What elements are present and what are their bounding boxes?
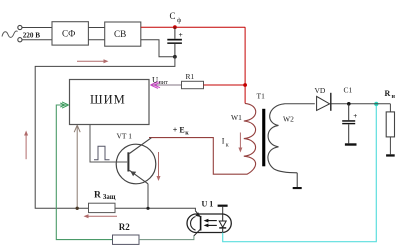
load Rn (386, 112, 394, 137)
collector line (129, 138, 151, 154)
wire emitter down (147, 184, 149, 209)
wire red vertical to W1 (244, 27, 246, 103)
phototransistor arrow (195, 212, 200, 217)
svg-text:Защ: Защ (103, 194, 116, 201)
svg-text:R1: R1 (186, 72, 195, 81)
svg-text:+: + (179, 30, 183, 39)
AC terminal circle bottom (18, 38, 22, 42)
wire Rn to ground (389, 137, 391, 154)
arrow current up left side (25, 134, 27, 160)
wire red R1 to node (204, 84, 246, 86)
LED of optocoupler (222, 215, 224, 222)
light arrow 1 (206, 220, 217, 222)
wire SF to SV top (88, 27, 104, 29)
arrow Ik on W1 (239, 133, 241, 150)
block ShIM (PWM controller) U-PWM (70, 80, 150, 125)
light arrow 2 (206, 224, 217, 226)
svg-text:220 В: 220 В (23, 31, 41, 39)
arrow green into PWM (60, 102, 68, 108)
node at C1 (347, 102, 351, 106)
capacitor Cf (174, 27, 176, 39)
block SF (mains filter) (52, 22, 88, 45)
svg-text:к: к (185, 131, 189, 137)
phototransistor bar (200, 216, 202, 231)
svg-text:СФ: СФ (62, 29, 75, 39)
wire red SV to Cf and right corner (141, 26, 245, 28)
wire feedback up into PWM (brown) (76, 126, 78, 209)
wire R2 to optocoupler (139, 236, 194, 240)
AC source sine symbol (2, 31, 18, 37)
transformer core (262, 109, 265, 167)
svg-text:к: к (226, 143, 229, 149)
svg-text:С1: С1 (344, 86, 353, 95)
phototransistor emitter lead (194, 229, 201, 236)
node brown on rail (76, 207, 79, 210)
arrow current direction top (77, 60, 106, 62)
svg-text:ШИМ: ШИМ (90, 93, 126, 107)
ground under Rn (386, 154, 395, 156)
diode VD (317, 96, 330, 110)
svg-text:VD: VD (315, 86, 326, 95)
wire W2 to diode (285, 103, 315, 105)
resistor R2 (113, 235, 140, 244)
svg-text:н: н (392, 94, 396, 100)
node cyan at output (374, 102, 378, 106)
svg-text:СВ: СВ (114, 29, 126, 39)
emitter line with arrow (129, 170, 148, 184)
wire AC top to SF (22, 27, 52, 29)
svg-text:R: R (385, 89, 391, 98)
node at Cf bottom (173, 55, 177, 59)
arrow Upit magenta (151, 82, 161, 89)
svg-text:+ Е: + Е (173, 126, 185, 135)
capacitor C1 (348, 104, 350, 120)
svg-text:+: + (353, 112, 357, 120)
svg-text:VT 1: VT 1 (117, 132, 133, 141)
wire rail right of Rzasch to optocoupler (115, 208, 195, 211)
svg-text:W2: W2 (283, 115, 294, 124)
svg-text:W1: W1 (231, 113, 242, 122)
AC terminal circle top (18, 25, 22, 29)
wire SV bottom to Cf bottom (141, 40, 175, 57)
arrow left under Rzasch (86, 215, 117, 217)
phototransistor collector lead (195, 211, 200, 217)
resistor R1 (182, 81, 204, 88)
node emitter on rail (146, 207, 149, 210)
svg-text:Т1: Т1 (257, 92, 266, 101)
block SV (rectifier) (105, 22, 141, 46)
transistor VT1 circle (116, 144, 156, 184)
node red R1/W1 (243, 83, 247, 87)
pulse waveform symbol (94, 146, 110, 160)
wire diode to load (331, 103, 390, 105)
svg-text:пит: пит (159, 79, 169, 86)
svg-text:R2: R2 (119, 222, 130, 232)
wire cyan LED to output (223, 104, 377, 242)
phototransistor arc (191, 217, 196, 231)
transistor VT1 base bar (127, 152, 129, 171)
wire SF to SV bottom (88, 39, 104, 41)
wire PWM output to base (90, 125, 127, 163)
resistor Rzasch (89, 203, 116, 212)
wire to Rn (389, 104, 391, 112)
winding W2 (268, 104, 297, 173)
node red at Cf top (173, 25, 177, 29)
svg-text:ф: ф (177, 17, 181, 24)
wire bar to optocoupler (222, 207, 224, 215)
ground under C1 (345, 143, 357, 145)
svg-text:U 1: U 1 (202, 200, 214, 209)
ground under W2 (296, 173, 298, 187)
optocoupler supply bar (218, 205, 228, 207)
wire Upit from R1 to PWM (152, 84, 182, 86)
svg-text:R: R (94, 191, 101, 201)
svg-text:С: С (170, 11, 176, 21)
svg-text:U: U (152, 75, 158, 85)
wire primary return rail (35, 57, 175, 209)
wire green from PWM input down (56, 105, 112, 240)
wire AC bottom to SF (22, 39, 52, 41)
winding W1 and +Ek collector wire (149, 103, 256, 174)
optocoupler U1 body (187, 214, 231, 233)
arrow current near VT1 (158, 152, 160, 178)
svg-text:I: I (222, 137, 225, 146)
